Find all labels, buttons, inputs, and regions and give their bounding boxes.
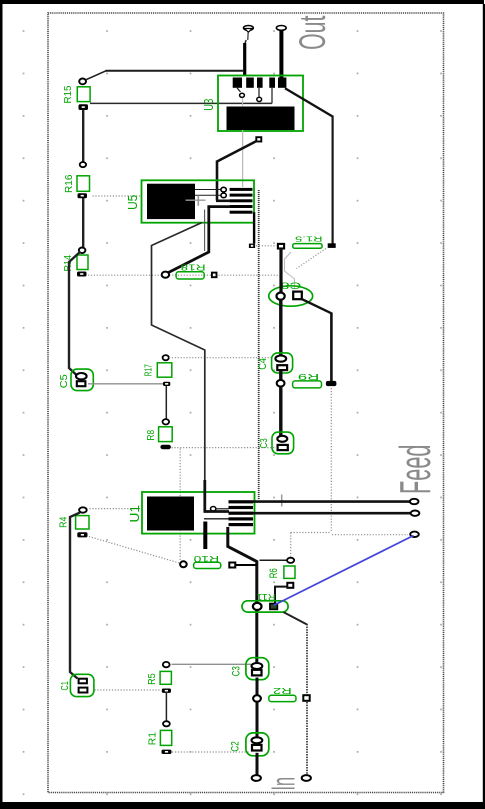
svg-text:R1: R1 — [148, 732, 159, 746]
svg-text:R4: R4 — [59, 516, 70, 528]
svg-text:R6: R6 — [268, 568, 280, 578]
svg-text:R1.5: R1.5 — [295, 235, 323, 244]
svg-text:R5: R5 — [147, 673, 158, 685]
svg-text:R16: R16 — [63, 174, 75, 193]
svg-text:R2: R2 — [273, 686, 292, 696]
svg-text:R15: R15 — [62, 85, 74, 103]
svg-text:C5: C5 — [58, 374, 70, 388]
svg-text:U1: U1 — [128, 505, 142, 523]
svg-text:C4: C4 — [257, 358, 269, 370]
svg-text:U3: U3 — [202, 99, 216, 111]
svg-text:Feed: Feed — [391, 445, 440, 495]
svg-text:Out: Out — [292, 15, 333, 50]
svg-text:C1: C1 — [59, 681, 71, 690]
svg-text:U5: U5 — [126, 195, 140, 210]
svg-text:R18: R18 — [180, 263, 206, 272]
svg-text:C3: C3 — [231, 666, 243, 676]
svg-text:R8: R8 — [146, 429, 157, 440]
svg-text:C3: C3 — [258, 438, 270, 448]
svg-text:C8: C8 — [281, 281, 302, 291]
svg-text:In: In — [265, 777, 302, 791]
svg-text:C2: C2 — [230, 741, 242, 751]
svg-text:R17: R17 — [144, 364, 155, 376]
